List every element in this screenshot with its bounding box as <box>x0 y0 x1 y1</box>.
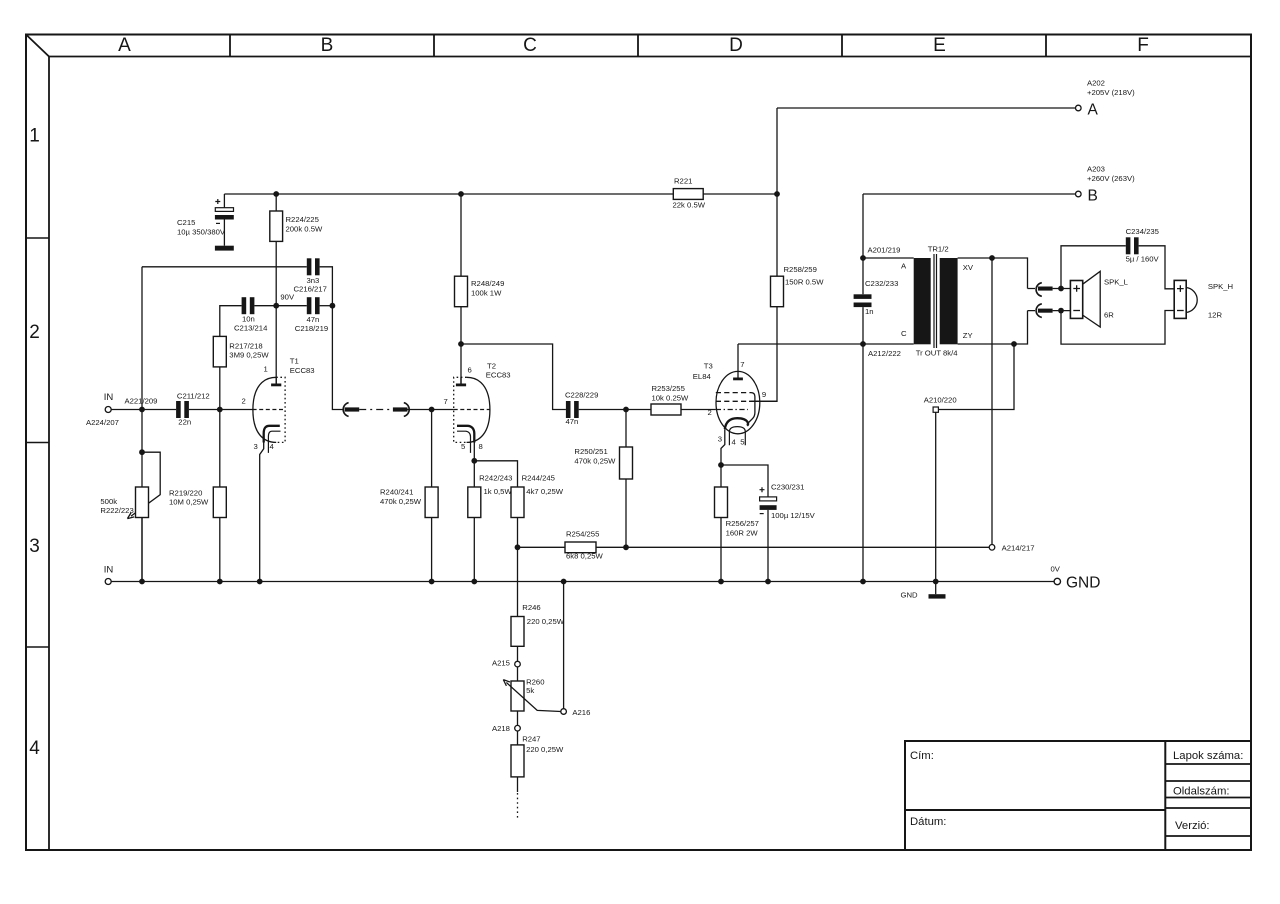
svg-text:B: B <box>321 35 334 56</box>
svg-text:R248/249: R248/249 <box>471 279 504 288</box>
wire 3n3 row right + corner down <box>320 267 333 306</box>
svg-text:ZY: ZY <box>963 331 973 340</box>
T1 cathode lead pin3 <box>260 443 264 582</box>
wire T2 anode to C228 <box>461 344 566 410</box>
T2 envelope dashed side <box>454 377 467 442</box>
T3 grid1 dash-dot <box>716 409 748 411</box>
wire secondary bottom <box>958 311 1028 344</box>
TR core lines <box>934 254 937 348</box>
svg-text:1k 0,5W: 1k 0,5W <box>484 487 513 496</box>
svg-text:A212/222: A212/222 <box>868 349 901 358</box>
wire 47n row left (10n branch) <box>220 306 242 337</box>
triode T1 ECC83 <box>253 377 286 582</box>
resistor R221 <box>673 189 703 200</box>
T2 grid dashed <box>454 409 490 411</box>
T1 anode lead <box>275 377 277 385</box>
svg-text:ECC83: ECC83 <box>486 371 511 380</box>
svg-text:A203: A203 <box>1087 164 1105 173</box>
T1 grid dashed <box>253 409 286 411</box>
wire terminal-B down to transformer <box>862 194 864 258</box>
resistor R258/259 <box>771 276 784 307</box>
svg-text:10n: 10n <box>242 314 255 323</box>
svg-text:Oldalszám:: Oldalszám: <box>1173 786 1230 798</box>
svg-text:3: 3 <box>254 442 258 451</box>
svg-text:R221: R221 <box>674 177 692 186</box>
svg-text:A: A <box>901 261 907 270</box>
svg-text:Cím:: Cím: <box>910 750 934 762</box>
svg-text:F: F <box>1137 35 1149 56</box>
row dividers <box>26 238 49 647</box>
wire terminal-A horizontal <box>777 107 1076 109</box>
wire R256 leads <box>720 465 722 582</box>
terminal GND <box>1054 578 1060 584</box>
svg-text:10M 0,25W: 10M 0,25W <box>169 498 209 507</box>
svg-text:A214/217: A214/217 <box>1002 543 1035 552</box>
capacitor C234/235 <box>1126 237 1139 254</box>
wire C215 top lead <box>223 194 225 208</box>
wire tweeter bottom loop <box>1061 311 1174 345</box>
T1 anode bar <box>271 383 281 386</box>
svg-text:A: A <box>1088 101 1099 118</box>
svg-text:5µ / 160V: 5µ / 160V <box>1126 255 1160 264</box>
terminal B <box>1076 191 1082 197</box>
wire R224 bottom to T1 anode <box>275 241 277 384</box>
SPK_H dome <box>1186 288 1197 313</box>
svg-text:C215: C215 <box>177 218 195 227</box>
resistor R253/255 <box>651 404 681 415</box>
resistor R242/243 <box>468 487 481 518</box>
capacitor C228/229 47n <box>566 401 579 418</box>
svg-text:4k7 0,25W: 4k7 0,25W <box>526 487 563 496</box>
title block right column lines <box>1165 764 1251 836</box>
T3 anode lead pin7 <box>737 344 739 379</box>
wire A218 to R247 <box>517 731 519 745</box>
title block cim/datum divider <box>905 809 1165 811</box>
svg-text:5: 5 <box>740 438 744 447</box>
svg-text:100k 1W: 100k 1W <box>471 289 502 298</box>
svg-text:C213/214: C213/214 <box>234 323 268 332</box>
wire R253 to T3 grid <box>681 409 716 411</box>
svg-text:ECC83: ECC83 <box>290 366 315 375</box>
svg-text:220 0,25W: 220 0,25W <box>526 745 564 754</box>
R260 arrowhead <box>503 680 510 686</box>
wire pot wiper <box>131 452 160 516</box>
wire top supply rail <box>224 193 777 195</box>
svg-text:10µ 350/380V: 10µ 350/380V <box>177 227 226 236</box>
resistor R244/245 <box>511 487 524 518</box>
svg-text:0V: 0V <box>1051 565 1061 574</box>
svg-text:6: 6 <box>468 366 472 375</box>
svg-text:R222/223: R222/223 <box>100 506 133 515</box>
capacitor C215 electrolytic <box>215 199 234 251</box>
interstage connector right bracket <box>404 403 409 417</box>
wire connector to T2 grid <box>408 409 454 411</box>
svg-text:22n: 22n <box>178 417 191 426</box>
T1 envelope solid arc <box>253 377 276 442</box>
interstage connector left bracket <box>343 403 348 417</box>
wire R258 bottom to screen <box>751 307 778 402</box>
svg-text:470k 0,25W: 470k 0,25W <box>574 456 616 465</box>
svg-text:A218: A218 <box>492 724 510 733</box>
T3 anode bar <box>733 377 743 380</box>
svg-text:R258/259: R258/259 <box>784 265 817 274</box>
wire top connector leads <box>1028 288 1071 290</box>
svg-text:C: C <box>523 35 537 56</box>
T3 cathode lead pin3 <box>721 429 725 465</box>
T2 anode lead <box>460 377 462 385</box>
svg-text:C211/212: C211/212 <box>177 391 210 400</box>
T1 heater curve pin4 <box>268 431 280 453</box>
potentiometer R222/223 body <box>136 487 149 518</box>
wire C211 to T1 grid <box>189 409 253 411</box>
svg-text:SPK_L: SPK_L <box>1104 278 1129 287</box>
wire R219 leads <box>219 410 221 582</box>
ground symbol bar <box>929 594 946 598</box>
svg-text:R242/243: R242/243 <box>479 474 512 483</box>
svg-text:A: A <box>118 35 131 56</box>
speaker SPK_L box <box>1070 281 1082 319</box>
svg-text:R240/241: R240/241 <box>380 488 413 497</box>
svg-text:T2: T2 <box>487 361 496 370</box>
wire T3 anode row to transformer <box>738 343 863 345</box>
svg-text:A202: A202 <box>1087 78 1105 87</box>
wire dotted continuation <box>517 793 519 818</box>
wire terminal-A vertical <box>776 108 778 194</box>
T3 grid3 dashed <box>716 392 751 394</box>
svg-text:8: 8 <box>479 442 483 451</box>
svg-text:4: 4 <box>29 738 40 759</box>
capacitor C218/219 47n <box>307 297 320 314</box>
svg-text:A224/207: A224/207 <box>86 418 119 427</box>
resistor R217/218 <box>213 336 226 367</box>
svg-text:500k: 500k <box>100 497 117 506</box>
svg-text:2: 2 <box>242 397 246 406</box>
svg-text:GND: GND <box>901 590 919 599</box>
svg-text:A216: A216 <box>572 708 590 717</box>
terminal A210/220 square <box>933 407 938 412</box>
interstage dash-dot wire <box>359 409 393 411</box>
svg-text:6R: 6R <box>1104 310 1114 319</box>
svg-text:1: 1 <box>264 365 268 374</box>
wire primary bottom <box>863 343 914 345</box>
wire feedback vertical x=142 <box>141 267 143 582</box>
resistor R248/249 <box>455 276 468 307</box>
T2 cathode lead pin8 <box>473 443 475 461</box>
svg-text:10k 0.25W: 10k 0.25W <box>652 393 689 402</box>
T2 envelope solid arc <box>467 377 490 442</box>
svg-text:5k: 5k <box>526 686 534 695</box>
svg-text:R250/251: R250/251 <box>574 447 607 456</box>
SPK_L horn <box>1083 271 1101 327</box>
wire R246 top lead <box>517 547 519 616</box>
svg-text:Tr OUT 8k/4: Tr OUT 8k/4 <box>916 348 959 357</box>
wire cathode junction to R244 <box>474 461 517 487</box>
wire R240 leads <box>431 410 433 582</box>
terminal A216 <box>561 709 567 715</box>
wire R248 top lead <box>460 194 462 276</box>
speaker connector bottom pin bar <box>1038 309 1053 313</box>
terminal A218 <box>515 725 521 731</box>
svg-text:160R 2W: 160R 2W <box>726 528 759 537</box>
TITLE BLOCK <box>905 741 1251 850</box>
svg-text:A210/220: A210/220 <box>924 396 957 405</box>
TR secondary winding <box>940 258 958 344</box>
svg-text:90V: 90V <box>280 293 295 302</box>
wire C228 to R253 <box>579 409 651 411</box>
svg-text:C: C <box>901 329 907 338</box>
svg-text:A221/209: A221/209 <box>125 396 158 405</box>
svg-text:C228/229: C228/229 <box>565 391 598 400</box>
wire R260 to A218 <box>517 711 519 725</box>
wire input row: IN to C211 <box>111 409 176 411</box>
svg-text:47n: 47n <box>307 315 320 324</box>
capacitor C232/233 1n <box>854 294 872 307</box>
resistor R219/220 <box>213 487 226 518</box>
svg-text:R253/255: R253/255 <box>652 384 685 393</box>
wire 3n3 row left <box>142 266 307 268</box>
svg-text:R247: R247 <box>522 735 540 744</box>
terminal A <box>1076 105 1082 111</box>
svg-text:C230/231: C230/231 <box>771 482 804 491</box>
border inner header line <box>49 56 1251 58</box>
resistor R254/255 <box>565 542 596 553</box>
resistor R256/257 <box>715 487 728 518</box>
wire bottom connector leads <box>1028 310 1071 312</box>
svg-text:TR1/2: TR1/2 <box>928 245 949 254</box>
resistor R224/225 <box>270 211 283 241</box>
wire 47n right to node <box>320 305 333 307</box>
svg-text:3M9 0,25W: 3M9 0,25W <box>229 351 269 360</box>
svg-text:EL84: EL84 <box>693 372 712 381</box>
svg-text:Lapok száma:: Lapok száma: <box>1173 750 1243 762</box>
svg-text:Verzió:: Verzió: <box>1175 820 1210 832</box>
svg-text:C218/219: C218/219 <box>295 324 328 333</box>
ground symbol stem <box>935 582 937 595</box>
svg-text:47n: 47n <box>566 417 579 426</box>
wire A210 to GND rail <box>935 412 937 581</box>
border corner diagonal <box>26 35 49 57</box>
wire cathode node row <box>721 465 768 497</box>
wire GND rail <box>111 581 1054 583</box>
svg-text:7: 7 <box>444 397 448 406</box>
svg-text:B: B <box>1088 187 1098 204</box>
svg-text:R254/255: R254/255 <box>566 529 599 538</box>
capacitor C211/212 22n <box>176 401 189 418</box>
svg-text:T3: T3 <box>704 362 713 371</box>
wire R224 top lead <box>275 194 277 211</box>
row numbers <box>29 126 40 760</box>
terminal IN lower <box>105 579 111 585</box>
wire C232 leads <box>862 258 864 344</box>
svg-text:C232/233: C232/233 <box>865 279 898 288</box>
pentode T3 EL84 <box>716 344 777 465</box>
interstage connector left pin bar <box>345 407 360 411</box>
svg-text:A201/219: A201/219 <box>868 245 901 254</box>
T1 envelope dotted side <box>276 377 285 442</box>
svg-text:R260: R260 <box>526 678 544 687</box>
svg-text:A215: A215 <box>492 659 510 668</box>
terminal A215 <box>515 661 521 667</box>
svg-text:IN: IN <box>104 564 114 575</box>
title block outline <box>905 741 1251 850</box>
svg-text:3: 3 <box>718 435 722 444</box>
terminal A214/217 <box>989 545 995 551</box>
triode T2 ECC83 <box>454 377 490 461</box>
svg-text:IN: IN <box>104 392 114 403</box>
T3 envelope <box>716 371 760 433</box>
svg-text:SPK_H: SPK_H <box>1208 282 1233 291</box>
wire R244 bottom to R254 node <box>517 518 519 548</box>
svg-text:R219/220: R219/220 <box>169 488 202 497</box>
wire R254 row / A214 line <box>518 546 990 548</box>
potentiometer arrowhead <box>127 513 134 519</box>
svg-text:6k8 0,25W: 6k8 0,25W <box>566 552 603 561</box>
svg-text:C234/235: C234/235 <box>1126 227 1159 236</box>
T3 cathode arc <box>725 418 748 429</box>
SPK_H plus <box>1177 285 1184 292</box>
svg-text:Dátum:: Dátum: <box>910 816 946 828</box>
svg-text:R256/257: R256/257 <box>726 519 759 528</box>
wire tweeter top loop <box>1061 246 1126 289</box>
resistor R240/241 <box>425 487 438 518</box>
svg-text:C216/217: C216/217 <box>294 285 327 294</box>
svg-text:9: 9 <box>762 390 766 399</box>
speaker SPK_H box <box>1174 280 1186 318</box>
terminal IN upper <box>105 407 111 413</box>
wire R258 top lead <box>776 194 778 276</box>
capacitor C230/231 electrolytic <box>760 487 777 581</box>
wire pot body leads <box>141 518 143 582</box>
wire GND to A216 <box>563 582 565 709</box>
svg-text:+260V (263V): +260V (263V) <box>1087 174 1135 183</box>
T3 heater legs pins 4 5 <box>729 432 745 445</box>
column letters <box>118 35 1149 56</box>
wire R250 leads <box>625 410 627 548</box>
wire secondary top <box>958 258 1028 289</box>
T3 screen lead <box>749 400 777 402</box>
wire A214 vertical from secondary <box>991 258 993 545</box>
speaker connector top bracket <box>1036 283 1042 297</box>
svg-text:2: 2 <box>708 408 712 417</box>
svg-text:R217/218: R217/218 <box>229 342 262 351</box>
svg-text:4: 4 <box>732 438 737 447</box>
T2 anode bar <box>456 383 466 386</box>
wire R217 bottom lead <box>219 367 221 410</box>
wire R248 bottom to T2 anode <box>460 307 462 384</box>
T3 screen grid dashed pin9 <box>716 400 749 402</box>
T3 heater dome <box>729 427 745 432</box>
column dividers <box>230 35 1046 57</box>
svg-text:2: 2 <box>29 322 40 343</box>
border inner left line <box>48 57 50 851</box>
svg-text:R244/245: R244/245 <box>522 474 555 483</box>
svg-text:T1: T1 <box>290 356 299 365</box>
capacitor C213/214 10n <box>242 297 255 314</box>
svg-text:3: 3 <box>29 536 40 557</box>
speaker connector bottom bracket <box>1036 304 1042 318</box>
svg-text:5: 5 <box>461 442 465 451</box>
wire 10n to plate node <box>254 305 306 307</box>
svg-text:470k 0,25W: 470k 0,25W <box>380 497 422 506</box>
wire R242 leads <box>473 461 475 582</box>
svg-text:150R 0.5W: 150R 0.5W <box>785 278 824 287</box>
interstage connector right pin bar <box>393 407 408 411</box>
svg-text:100µ 12/15V: 100µ 12/15V <box>771 511 816 520</box>
svg-text:1: 1 <box>29 126 40 147</box>
T3 grid3 hook to cathode <box>749 393 755 423</box>
capacitor C216/217 3n3 <box>307 258 320 275</box>
svg-text:D: D <box>729 35 743 56</box>
svg-text:R224/225: R224/225 <box>286 215 319 224</box>
speaker connector top pin bar <box>1038 287 1053 291</box>
T2 cathode curve <box>457 426 474 443</box>
svg-text:220 0,25W: 220 0,25W <box>527 617 565 626</box>
svg-text:XV: XV <box>963 263 974 272</box>
wire R246 to A215 <box>517 646 519 661</box>
wire A215 to R260 <box>517 667 519 681</box>
svg-text:E: E <box>933 35 946 56</box>
resistor R247 <box>511 745 524 777</box>
SPK_L minus <box>1073 310 1080 312</box>
wire R247 bottom stub <box>517 777 519 792</box>
SPK_L plus <box>1073 285 1080 292</box>
svg-text:7: 7 <box>740 360 744 369</box>
potentiometer R260 body <box>511 681 524 711</box>
svg-text:12R: 12R <box>1208 310 1223 319</box>
T2 heater curve pin5 <box>457 431 471 453</box>
svg-text:22k 0.5W: 22k 0.5W <box>673 201 706 210</box>
wire A212 vertical to GND <box>862 344 864 582</box>
wire A210 branch <box>938 344 1014 410</box>
wire terminal-B horizontal <box>863 193 1076 195</box>
svg-text:GND: GND <box>1066 574 1100 591</box>
T1 cathode curve <box>264 426 280 443</box>
wire C234 to SPK_H <box>1139 246 1175 289</box>
transformer TR1/2 <box>863 254 1028 348</box>
svg-text:200k 0.5W: 200k 0.5W <box>286 225 323 234</box>
svg-text:1n: 1n <box>865 307 874 316</box>
svg-text:4: 4 <box>270 442 275 451</box>
title block vertical divider <box>1164 741 1166 850</box>
svg-text:R246: R246 <box>522 603 540 612</box>
SPK_H minus <box>1177 310 1184 312</box>
potentiometer R260 wiper <box>506 683 560 712</box>
wire primary top <box>863 257 914 259</box>
resistor R250/251 <box>620 447 633 479</box>
wire node down to interstage row <box>332 306 344 410</box>
TR primary winding <box>914 258 931 344</box>
svg-text:+205V (218V): +205V (218V) <box>1087 88 1135 97</box>
resistor R246 <box>511 617 524 647</box>
